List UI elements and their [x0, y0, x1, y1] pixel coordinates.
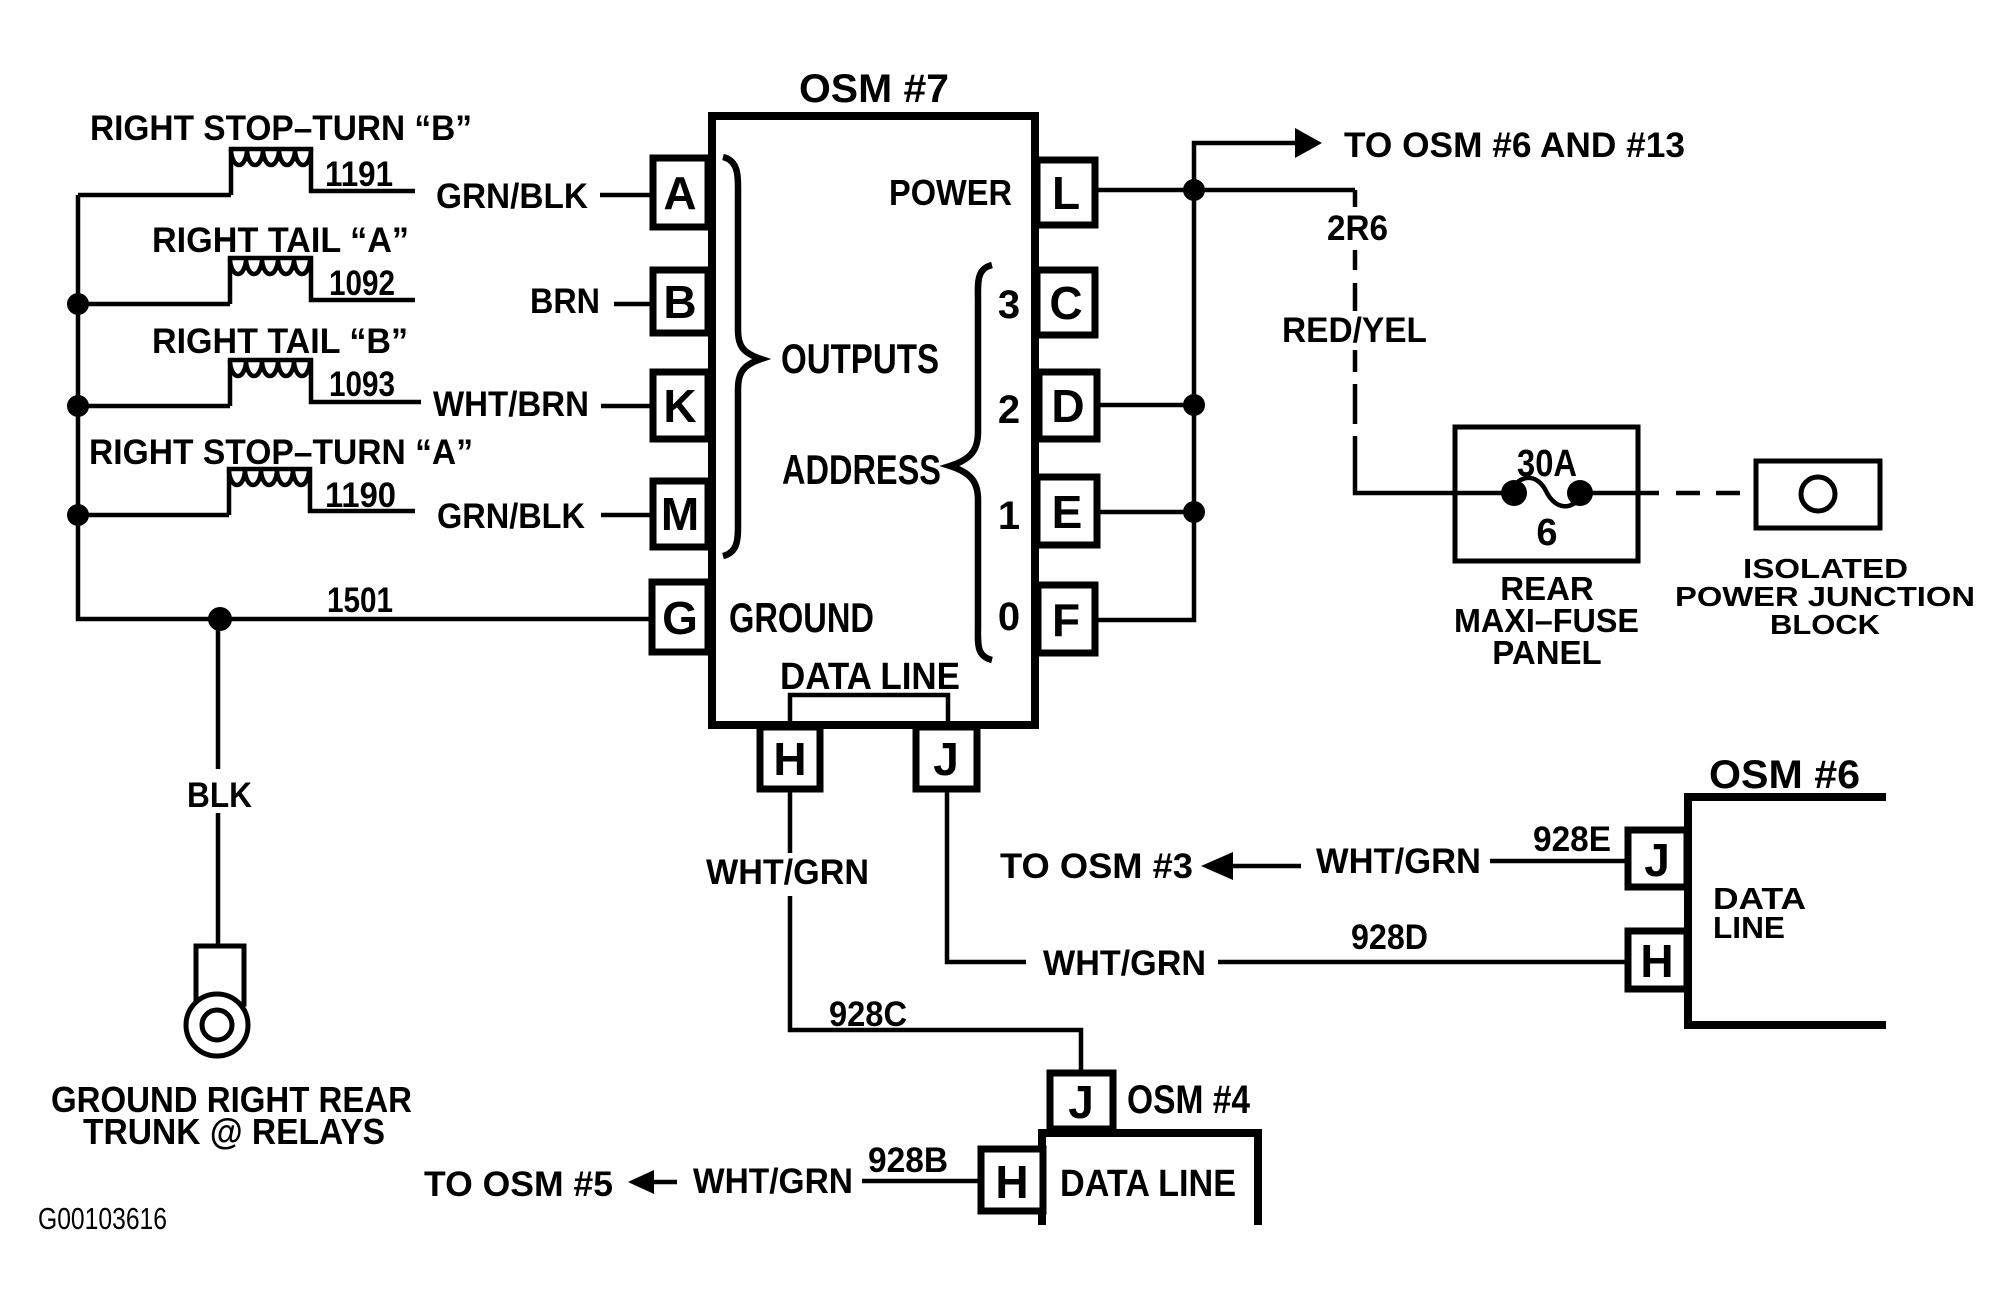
wire after arrow	[1233, 864, 1301, 869]
svg-text:WHT/BRN: WHT/BRN	[433, 385, 589, 424]
ground ring terminal	[186, 946, 248, 1056]
wire to pin M	[601, 513, 651, 518]
wire 928E	[1490, 859, 1628, 864]
svg-text:H: H	[995, 1156, 1028, 1208]
pin B	[653, 270, 708, 333]
OSM #7 box	[712, 116, 1035, 725]
wire arrow to OSM 6 and 13	[1194, 143, 1297, 190]
svg-text:WHT/GRN: WHT/GRN	[1316, 842, 1481, 881]
svg-text:0: 0	[998, 595, 1020, 639]
pin H OSM6	[1628, 931, 1687, 989]
svg-text:BRN: BRN	[530, 282, 600, 321]
svg-text:F: F	[1052, 594, 1080, 646]
svg-text:GRN/BLK: GRN/BLK	[436, 177, 588, 216]
pin J OSM6	[1628, 830, 1687, 887]
svg-text:GRN/BLK: GRN/BLK	[437, 497, 585, 536]
svg-text:RIGHT STOP–TURN “A”: RIGHT STOP–TURN “A”	[89, 433, 473, 472]
svg-text:DATA LINE: DATA LINE	[780, 656, 960, 698]
svg-text:WHT/GRN: WHT/GRN	[1043, 944, 1206, 983]
junction dot 1501	[208, 607, 232, 631]
svg-text:3: 3	[998, 283, 1020, 327]
svg-text:J: J	[933, 733, 959, 785]
wire BLK drop	[216, 619, 221, 769]
svg-text:A: A	[663, 167, 696, 219]
data line bracket	[790, 695, 948, 723]
wire E to bus	[1097, 510, 1194, 515]
svg-text:ADDRESS: ADDRESS	[782, 446, 941, 493]
svg-text:RIGHT STOP–TURN “B”: RIGHT STOP–TURN “B”	[90, 109, 472, 148]
svg-text:1190: 1190	[325, 476, 396, 515]
wire BLK lower	[216, 813, 221, 948]
svg-text:TO OSM #5: TO OSM #5	[424, 1165, 613, 1204]
svg-text:J: J	[1644, 834, 1670, 886]
svg-text:M: M	[661, 488, 699, 540]
svg-text:1191: 1191	[325, 155, 393, 194]
pin H OSM4	[981, 1149, 1043, 1211]
svg-text:TO OSM #6 AND #13: TO OSM #6 AND #13	[1344, 126, 1685, 165]
junction dot D	[1183, 394, 1205, 416]
wire 928D	[1218, 960, 1628, 965]
svg-text:BLOCK: BLOCK	[1770, 609, 1880, 640]
arrowhead right	[1295, 128, 1322, 158]
pin D	[1039, 372, 1097, 439]
svg-text:928E: 928E	[1533, 820, 1611, 859]
pin L	[1037, 160, 1095, 225]
lamp coil 1093	[230, 360, 421, 406]
pin J of OSM 7	[916, 727, 977, 789]
brace address	[950, 265, 992, 660]
junction dot row K	[67, 395, 89, 417]
svg-text:928B: 928B	[868, 1141, 948, 1180]
wire to pin K	[601, 404, 651, 409]
svg-text:J: J	[1068, 1076, 1094, 1128]
svg-text:POWER JUNCTION: POWER JUNCTION	[1675, 581, 1975, 612]
wire bus to coil 1092	[78, 302, 230, 307]
svg-text:WHT/GRN: WHT/GRN	[693, 1162, 853, 1201]
svg-text:ISOLATED: ISOLATED	[1743, 553, 1908, 584]
svg-text:928C: 928C	[829, 995, 907, 1034]
svg-text:RIGHT TAIL “B”: RIGHT TAIL “B”	[152, 322, 408, 361]
lamp coil 1191	[231, 149, 415, 195]
pin E	[1037, 477, 1097, 545]
pin A	[653, 158, 708, 227]
OSM #4 box	[1042, 1133, 1258, 1225]
isolated power junction block	[1756, 461, 1880, 528]
wire bus to coil 1191	[78, 193, 231, 198]
wire J drop	[947, 789, 1026, 962]
svg-text:OUTPUTS: OUTPUTS	[781, 335, 939, 382]
fuse element	[1455, 491, 1514, 496]
svg-text:RIGHT TAIL “A”: RIGHT TAIL “A”	[152, 221, 409, 260]
pin J OSM4	[1050, 1073, 1113, 1129]
svg-text:G00103616: G00103616	[38, 1201, 167, 1236]
svg-text:2R6: 2R6	[1327, 209, 1388, 248]
wire bus to coil 1093	[78, 404, 230, 409]
fuse box	[1455, 427, 1638, 561]
svg-text:K: K	[663, 380, 696, 432]
svg-text:RED/YEL: RED/YEL	[1282, 311, 1427, 350]
svg-text:LINE: LINE	[1713, 910, 1785, 945]
svg-text:BLK: BLK	[187, 776, 252, 815]
svg-text:E: E	[1052, 486, 1083, 538]
svg-text:OSM #6: OSM #6	[1709, 753, 1860, 797]
svg-text:D: D	[1051, 380, 1084, 432]
svg-text:1093: 1093	[329, 365, 395, 404]
svg-text:2: 2	[998, 388, 1020, 432]
arrowhead left OSM3	[1201, 852, 1233, 880]
pin H of OSM 7	[760, 727, 820, 789]
wire bus to coil 1190	[78, 513, 229, 518]
svg-text:OSM #4: OSM #4	[1127, 1078, 1251, 1122]
svg-text:GROUND: GROUND	[729, 594, 874, 641]
pin C	[1037, 270, 1095, 335]
wire 928C	[790, 896, 1081, 1073]
wire to pin A	[600, 193, 651, 198]
svg-text:PANEL: PANEL	[1492, 634, 1601, 671]
svg-text:G: G	[662, 592, 698, 644]
wire 2R6 dashed drop	[1353, 190, 1358, 207]
svg-text:OSM #7: OSM #7	[799, 67, 949, 111]
svg-text:6: 6	[1536, 512, 1557, 554]
svg-text:H: H	[773, 733, 806, 785]
junction dot L	[1183, 179, 1205, 201]
svg-text:TO OSM #3: TO OSM #3	[1000, 847, 1193, 886]
pin F	[1038, 585, 1095, 653]
svg-text:1: 1	[998, 494, 1020, 538]
pin M	[653, 481, 708, 547]
junction dot row B	[67, 293, 89, 315]
wire to pin B	[614, 302, 651, 307]
svg-text:C: C	[1049, 277, 1082, 329]
svg-text:TRUNK @ RELAYS: TRUNK @ RELAYS	[83, 1111, 385, 1152]
svg-text:POWER: POWER	[889, 172, 1012, 213]
lamp coil 1190	[229, 469, 415, 515]
svg-text:DATA LINE: DATA LINE	[1060, 1163, 1236, 1205]
svg-text:B: B	[663, 276, 696, 328]
pin K	[653, 372, 708, 439]
brace outputs	[723, 157, 761, 556]
wire 928B	[862, 1179, 981, 1184]
arrow tail	[652, 1180, 677, 1185]
svg-text:WHT/GRN: WHT/GRN	[706, 853, 869, 892]
lamp coil 1092	[230, 258, 415, 304]
wire D to bus	[1097, 403, 1194, 408]
svg-text:928D: 928D	[1351, 918, 1428, 957]
OSM #6 box	[1688, 797, 1886, 1025]
svg-text:L: L	[1052, 167, 1080, 219]
svg-text:1501: 1501	[327, 581, 393, 620]
svg-text:1092: 1092	[329, 264, 395, 303]
ground bus wire	[78, 195, 652, 619]
junction dot row M	[67, 504, 89, 526]
svg-text:H: H	[1640, 935, 1673, 987]
arrowhead left OSM5	[628, 1170, 654, 1194]
wire L to junction	[1095, 188, 1355, 193]
wire H drop	[788, 789, 793, 853]
right bus vertical	[1095, 190, 1194, 620]
pin G	[652, 582, 708, 652]
junction dot E	[1183, 501, 1205, 523]
dashed wire to junction block	[1676, 491, 1740, 496]
